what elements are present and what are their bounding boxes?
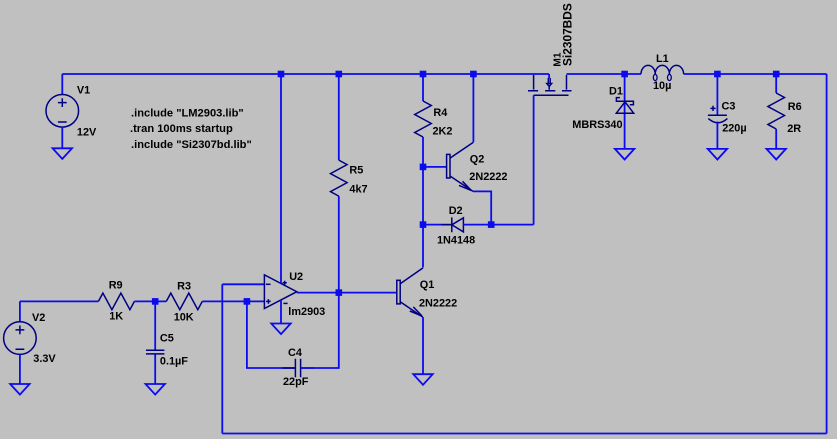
svg-text:220µ: 220µ <box>722 123 746 135</box>
svg-text:22pF: 22pF <box>283 376 309 388</box>
wire bottom rail <box>222 433 826 435</box>
transistor Q2 <box>447 142 474 191</box>
diode D1 <box>616 74 633 149</box>
resistor R6 <box>768 93 785 129</box>
svg-text:Si2307BDS: Si2307BDS <box>560 3 574 66</box>
wire M1 gate <box>533 95 535 224</box>
resistor R9 <box>98 293 134 310</box>
capacitor C3 <box>708 74 728 149</box>
node top rail U2 junction <box>278 71 285 78</box>
wire R5 upper <box>338 74 340 160</box>
wire R6 lower <box>775 129 777 149</box>
capacitor C5 <box>146 301 164 384</box>
node D2 cathode junction <box>420 221 427 228</box>
svg-text:2N2222: 2N2222 <box>419 297 457 309</box>
svg-text:.include "Si2307bd.lib": .include "Si2307bd.lib" <box>131 139 252 151</box>
node top rail Q2 junction <box>470 71 477 78</box>
svg-text:V1: V1 <box>77 85 90 97</box>
wire R5 lower <box>338 196 340 293</box>
svg-text:R9: R9 <box>109 280 123 292</box>
resistor R3 <box>166 293 202 310</box>
svg-text:0.1µF: 0.1µF <box>160 355 188 367</box>
wire R4 lower <box>422 137 424 167</box>
svg-text:3.3V: 3.3V <box>33 353 56 365</box>
node C3 junction <box>714 71 721 78</box>
voltage source V1 <box>46 74 79 148</box>
node D1 junction <box>621 71 628 78</box>
svg-text:Q2: Q2 <box>470 154 485 166</box>
svg-text:.tran 100ms startup: .tran 100ms startup <box>130 123 233 135</box>
wire M1 source stub <box>548 74 550 78</box>
wire Q2 emitter <box>473 191 491 224</box>
wire V2 to R9 <box>20 300 99 302</box>
svg-text:C3: C3 <box>722 101 736 113</box>
ground D1 <box>615 149 634 160</box>
wire top rail right <box>567 73 642 75</box>
wire D2 row left <box>423 224 452 226</box>
wire Q2 collector <box>472 74 474 142</box>
ground C5 <box>146 384 165 395</box>
wire op-amp output <box>297 292 397 294</box>
svg-text:2R: 2R <box>787 123 801 135</box>
voltage source V2 <box>4 301 37 384</box>
svg-text:C4: C4 <box>288 347 302 359</box>
svg-text:R3: R3 <box>177 280 191 292</box>
node top rail R5 junction <box>336 71 343 78</box>
wire R6 upper <box>775 74 777 93</box>
svg-text:4k7: 4k7 <box>349 183 367 195</box>
ground C3 <box>708 149 727 160</box>
op-amp U2 <box>264 74 296 324</box>
wire Q2 base to Q1 collector riser <box>422 167 424 268</box>
node R9/R3/C5 junction <box>152 298 159 305</box>
node output junction <box>336 289 343 296</box>
wire R3 to op-amp <box>202 300 264 302</box>
wire R9 to R3 <box>134 300 166 302</box>
svg-text:D2: D2 <box>449 205 463 217</box>
wire inverting input <box>222 283 264 285</box>
ground V2 <box>10 384 29 395</box>
MOSFET M1 <box>528 75 572 95</box>
inductor L1 <box>641 65 684 80</box>
svg-text:MBRS340: MBRS340 <box>572 119 622 131</box>
ground R6 <box>767 149 786 160</box>
resistor R5 <box>331 160 348 196</box>
node +input/C4 junction <box>244 298 251 305</box>
svg-text:L1: L1 <box>656 53 669 65</box>
svg-text:10µ: 10µ <box>653 80 671 92</box>
node top rail R4 junction <box>420 71 427 78</box>
ground U2 <box>271 324 290 335</box>
wire gate link <box>491 224 533 226</box>
wire C4 left branch <box>247 301 296 368</box>
wire D2 row right <box>463 224 491 226</box>
svg-text:2K2: 2K2 <box>433 125 453 137</box>
transistor Q1 <box>397 268 423 317</box>
svg-text:1N4148: 1N4148 <box>437 235 475 247</box>
wire Q2 base <box>423 166 447 168</box>
svg-text:2N2222: 2N2222 <box>469 171 507 183</box>
wire feedback riser <box>221 284 223 433</box>
wire R4 upper <box>422 74 424 101</box>
capacitor C4 <box>282 359 313 377</box>
wire right edge <box>826 74 828 434</box>
wire top rail left <box>62 73 549 75</box>
ground Q1 <box>413 374 432 385</box>
node R6 junction <box>773 71 780 78</box>
wire top rail right2 <box>684 73 827 75</box>
resistor R4 <box>415 101 432 137</box>
svg-text:Q1: Q1 <box>420 279 435 291</box>
ground V1 <box>53 148 72 159</box>
svg-text:.include "LM2903.lib": .include "LM2903.lib" <box>131 108 244 120</box>
svg-text:D1: D1 <box>609 86 623 98</box>
wire C4 right branch <box>301 293 339 368</box>
svg-text:R4: R4 <box>433 107 447 119</box>
svg-text:C5: C5 <box>160 333 174 345</box>
node R4/Q2 base junction <box>420 164 427 171</box>
svg-text:10K: 10K <box>174 312 194 324</box>
svg-text:R5: R5 <box>349 165 363 177</box>
svg-text:1K: 1K <box>109 310 123 322</box>
svg-text:12V: 12V <box>77 127 97 139</box>
wire Q1 emitter <box>422 317 424 374</box>
svg-text:R6: R6 <box>788 101 802 113</box>
node D2 anode junction <box>488 221 495 228</box>
svg-text:lm2903: lm2903 <box>288 306 325 318</box>
diode D2 <box>441 217 470 232</box>
svg-text:V2: V2 <box>32 312 45 324</box>
svg-text:U2: U2 <box>289 271 303 283</box>
